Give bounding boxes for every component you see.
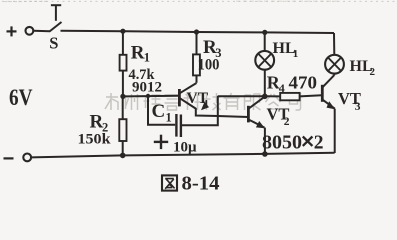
node VT2 emitter bottom (262, 151, 268, 157)
wire R2 to bottom (122, 141, 124, 156)
wire C1 left leg (148, 96, 175, 125)
label VT3 (338, 89, 361, 113)
label R2 (90, 112, 109, 135)
label 9012 (132, 80, 162, 96)
label S (49, 33, 58, 52)
wire HL2 to VT3 collector (333, 74, 335, 76)
wire top to HL1 (264, 32, 266, 51)
VT2 collector lead (249, 97, 265, 109)
lamp HL1 (255, 51, 274, 70)
switch S arm (49, 22, 61, 32)
capacitor plus polarity mark (154, 135, 168, 149)
transistor VT1 base bar (178, 89, 181, 106)
svg-text:4: 4 (279, 81, 285, 95)
VT1 emitter drop to output bus (196, 108, 249, 117)
svg-text:C: C (152, 101, 166, 122)
label VT2 (267, 105, 290, 128)
capacitor C1 (176, 114, 181, 137)
watermark 杭州将睿科技有限公司 (105, 93, 301, 110)
svg-text:6V: 6V (9, 85, 33, 110)
node A junction R1/R2/base (120, 94, 125, 99)
VT1 emitter lead with PNP arrow (180, 98, 209, 110)
switch button actuator (51, 5, 61, 21)
wire VT3 emitter to bottom (334, 109, 336, 153)
transistor VT2 base bar (247, 106, 250, 123)
caption glyph tu (figure) (162, 175, 177, 190)
node C1 tap on base wire (146, 94, 150, 98)
bottom return wire (31, 153, 334, 158)
svg-text:S: S (49, 33, 58, 52)
svg-text:R: R (131, 43, 145, 64)
svg-text:8050: 8050 (262, 132, 302, 153)
wire top to R3 (196, 32, 198, 54)
svg-text:1: 1 (204, 98, 210, 110)
svg-text:2: 2 (370, 66, 376, 78)
lamp HL2 (325, 55, 344, 74)
VT3 emitter lead with NPN arrow (323, 100, 336, 110)
VT3 collector lead (323, 75, 335, 87)
label R1 (131, 43, 150, 65)
svg-text:10μ: 10μ (173, 140, 197, 156)
wire top corner down to HL2 (333, 33, 335, 55)
label 100 (198, 57, 220, 74)
svg-text:150k: 150k (78, 131, 112, 147)
node: top wire to R1 (120, 29, 125, 34)
junction HL1/R4/VT2 (262, 94, 268, 100)
node R2 bottom (120, 153, 126, 159)
wire VT2 emitter to bottom (264, 128, 266, 155)
label 4.7k (129, 67, 156, 83)
wire C1 right leg (182, 96, 218, 125)
caption 8-14 (182, 173, 220, 195)
label C1 (152, 101, 172, 125)
battery minus terminal (4, 157, 14, 159)
svg-text:100: 100 (198, 57, 220, 74)
wire top to R1 (122, 31, 124, 55)
resistor R1 (120, 55, 127, 71)
minus terminal circle (23, 154, 31, 162)
svg-text:3: 3 (355, 101, 361, 113)
wire node A to R2 (122, 96, 124, 119)
label 6V (9, 85, 33, 110)
transistor VT3 base bar (321, 85, 324, 102)
label R4 (267, 72, 285, 95)
label VT1 (187, 90, 210, 110)
wire R4 to VT3 base (300, 95, 322, 96)
label 10u (173, 140, 197, 156)
top supply wire (61, 31, 335, 33)
VT1 collector lead (180, 83, 197, 93)
label 470 (289, 72, 318, 92)
wire terminal to switch pivot (34, 30, 50, 33)
scan noise top edge (2, 0, 396, 2)
label 8050x2 (262, 132, 324, 153)
resistor R4 (280, 93, 299, 100)
resistor R2 (119, 119, 126, 141)
wire R1 to node A (122, 71, 124, 97)
svg-text:1: 1 (166, 111, 172, 125)
base wire node A to VT1 (123, 95, 179, 98)
node: top wire to R3 (194, 29, 199, 34)
VT2 emitter lead with NPN arrow (249, 120, 265, 129)
svg-text:8-14: 8-14 (182, 173, 220, 195)
plus terminal circle (26, 27, 34, 35)
wire R3 to VT1 collector (196, 75, 198, 82)
wire emitter bus to lamp junction (218, 95, 265, 97)
resistor R3 (193, 54, 200, 75)
label R3 (203, 37, 221, 60)
label 150k (78, 131, 112, 147)
wire HL1 to junction (264, 70, 266, 97)
svg-text:1: 1 (293, 48, 299, 60)
svg-text:2: 2 (314, 132, 324, 153)
label HL2 (350, 58, 376, 78)
battery plus terminal (7, 26, 17, 36)
svg-text:9012: 9012 (132, 80, 162, 96)
wire junction to R4 (265, 95, 280, 97)
svg-text:1: 1 (144, 51, 150, 65)
svg-text:2: 2 (284, 116, 290, 128)
lamp HL1 node on top wire (262, 30, 267, 35)
svg-text:470: 470 (289, 72, 318, 92)
label HL1 (273, 40, 299, 60)
